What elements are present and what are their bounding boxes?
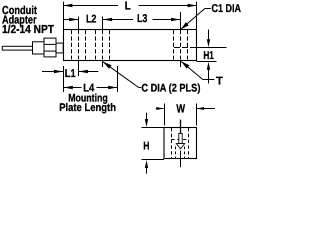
svg-text:C1 DIA: C1 DIA — [212, 3, 242, 15]
svg-text:L: L — [125, 0, 131, 12]
end view centerline below — [180, 151, 182, 168]
svg-text:T: T — [216, 76, 223, 88]
conduit rod — [2, 46, 32, 50]
svg-text:L1: L1 — [65, 68, 76, 80]
dimension L — [63, 0, 196, 12]
leader T — [181, 61, 223, 87]
H1 bottom extension line — [197, 61, 217, 63]
H1 top extension line — [197, 47, 227, 49]
end view hidden lines outer — [172, 128, 189, 158]
end view square — [164, 128, 197, 159]
extension line hole2 center below — [102, 61, 104, 68]
extension line C1 center above — [180, 12, 182, 30]
W extension lines — [164, 104, 166, 126]
svg-text:L3: L3 — [137, 13, 148, 25]
label: Mounting Plate Length — [59, 93, 116, 114]
extension line C1 center below — [180, 61, 182, 68]
svg-text:1/2-14 NPT: 1/2-14 NPT — [2, 23, 54, 36]
svg-text:Plate Length: Plate Length — [59, 102, 116, 114]
svg-text:L2: L2 — [86, 14, 97, 26]
conduit cylinder — [33, 42, 45, 54]
svg-text:H1: H1 — [203, 50, 214, 62]
extension line body left top — [63, 2, 65, 30]
dimension L3 — [137, 13, 180, 25]
extension line left below (shared L1/L4) — [63, 66, 65, 92]
dimension L2 — [64, 14, 134, 26]
end view hidden lines inner lower — [176, 147, 185, 159]
svg-text:W: W — [176, 101, 185, 115]
dimension H1 — [203, 30, 214, 84]
threaded neck — [56, 43, 63, 53]
svg-text:C DIA (2 PLS): C DIA (2 PLS) — [141, 83, 200, 95]
load hole C1 hidden lines — [174, 30, 188, 60]
leader C1 DIA — [181, 3, 241, 29]
mounting hole 1 hidden lines — [72, 30, 86, 60]
extension line hole1 center below — [78, 61, 80, 77]
dimension H — [143, 113, 149, 174]
hidden line thin section — [174, 47, 197, 49]
end view centerline above — [180, 120, 182, 134]
H extension lines — [142, 127, 165, 129]
dimension W — [156, 101, 215, 115]
label: Conduit Adapter note — [2, 4, 54, 36]
dimension L1 — [42, 68, 98, 80]
extension line hole1 center above — [78, 17, 80, 30]
leader C DIA (2 PLS) — [103, 62, 201, 95]
mounting hole 2 hidden lines — [96, 30, 110, 60]
svg-text:H: H — [143, 140, 149, 152]
hex nut — [44, 38, 56, 57]
extension line body right top — [196, 2, 198, 30]
extension line hole2 center above — [102, 17, 104, 30]
dimension L4 — [64, 83, 117, 95]
end view hidden horizontal line — [172, 139, 189, 141]
extension line L4 right — [117, 66, 119, 92]
body rectangle (side view) — [64, 30, 197, 61]
load arrow (hollow) — [176, 134, 184, 149]
